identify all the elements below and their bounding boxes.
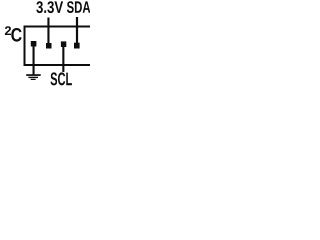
pin 2 pad (3.3V) — [46, 43, 52, 49]
wire pin 1 to ground — [33, 46, 35, 74]
pin 3 pad (SCL) — [61, 41, 66, 47]
pin 4 pad (SDA) — [74, 43, 80, 49]
net label SCL — [51, 72, 72, 85]
ground — [26, 74, 41, 80]
label I2C letter C — [11, 28, 21, 42]
net label SDA — [67, 1, 90, 13]
connector J1 outline — [25, 27, 91, 66]
wire 3.3V to pin 2 — [47, 18, 49, 44]
wire pin 3 to SCL — [62, 47, 64, 72]
label I2C superscript 2 — [5, 26, 11, 35]
wire SDA to pin 4 — [76, 17, 78, 43]
pin 1 pad (GND) — [31, 41, 37, 47]
net label 3.3V — [36, 1, 63, 13]
